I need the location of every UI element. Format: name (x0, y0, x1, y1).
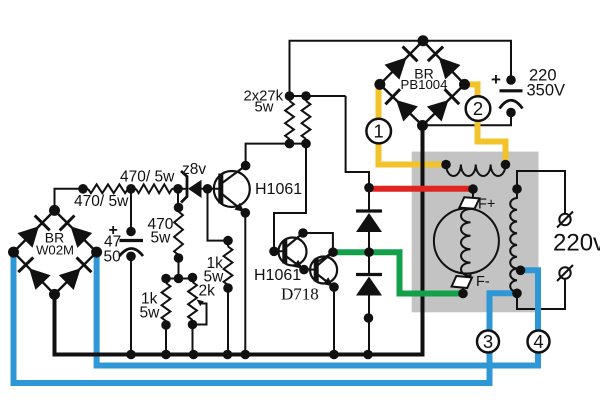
svg-text:z8v: z8v (182, 161, 206, 178)
svg-text:H1061: H1061 (254, 267, 301, 284)
field winding (horizontal coil) (446, 165, 506, 177)
red wire (field node to F+ brush) (369, 186, 473, 192)
wire: Q3 collector to green node (318, 252, 333, 261)
wire: 2x27k bottom to Q2 base (274, 144, 306, 252)
svg-text:350V: 350V (527, 82, 566, 100)
green wire (regulator output to F- brush) (333, 252, 463, 293)
bridge rectifier BR PB1004 (380, 41, 423, 85)
wire: F- brush lead (463, 273, 471, 294)
resistor R2 470/5w (horizontal) (136, 184, 172, 193)
capacitor C2 220/350V plates (500, 89, 523, 92)
wire: stator bottom to output terminal 2 (517, 279, 565, 310)
blue wire 3 (stator bottom to W02M AC left) (14, 252, 517, 383)
svg-text:1: 1 (374, 121, 384, 142)
node label 2 (466, 96, 491, 121)
svg-text:470/ 5w: 470/ 5w (120, 169, 175, 186)
bridge rectifier BR W02M (14, 210, 55, 252)
brush F+ (top parallelogram) (459, 197, 479, 209)
wire: Q1 collector to 2x27k bottom (246, 144, 306, 166)
diode D1 (upper of stack) (356, 209, 382, 212)
resistor R1 470/5w (horizontal) (88, 184, 128, 193)
junction dots (78, 184, 88, 194)
output terminal top (phi) (559, 214, 570, 225)
resistor R5 1k 5w (vertical right) (224, 247, 233, 286)
capacitor C1 47/50 plates (120, 239, 144, 242)
wire: C1 to negative bus (130, 255, 132, 355)
wire: zener node down to resistor R3 (177, 189, 179, 212)
node label 1 (366, 119, 391, 144)
wire: zener to Q1 base (202, 188, 221, 190)
stator winding (vertical coil) (510, 189, 517, 293)
wire: R7 leads (305, 96, 307, 144)
svg-text:D718: D718 (281, 285, 319, 304)
resistor R7 27k (right of pair) (302, 101, 311, 139)
svg-text:4: 4 (533, 331, 543, 352)
resistor R3 470 5w (vertical) (174, 212, 183, 256)
rotor winding (vertical coil) (461, 209, 470, 276)
wiper of VR1 2k (194, 304, 207, 325)
wire: VR1 leads (192, 278, 194, 355)
wire: R2 to zener (172, 188, 187, 190)
svg-text:H1061: H1061 (255, 181, 302, 198)
svg-text:2: 2 (473, 98, 483, 119)
brush F- (bottom parallelogram) (452, 276, 472, 288)
svg-text:50: 50 (104, 249, 122, 266)
resistor R6 27k (left of pair) (285, 101, 294, 139)
blue wire 4 (stator tap to W02M AC right) (97, 252, 538, 365)
wire: diode stack middle lead (368, 232, 370, 276)
svg-text:5w: 5w (151, 230, 172, 247)
bridge node dots (49, 205, 60, 216)
potentiometer VR1 2k body (188, 282, 197, 320)
wire: 2x27k top tie (290, 95, 346, 97)
wire: PB1004 - to capacitor C2 (423, 113, 512, 126)
negative bus (thick) from W02M - to PB1004 - (55, 126, 423, 355)
svg-text:5w: 5w (140, 305, 161, 322)
wire: R1 to R2 node (128, 188, 136, 190)
wire: Q1 emitter down to bus (244, 213, 246, 355)
yellow wire 1 (PB1004 AC left to field winding) (379, 87, 447, 165)
transistor Q1 H1061 (214, 171, 250, 207)
wire: 2x27k top to field node (346, 96, 369, 188)
diode D2 (lower of stack) (356, 273, 382, 276)
svg-text:PB1004: PB1004 (401, 77, 448, 92)
wire: Q2 collector to green node (303, 233, 333, 252)
node label 3 (477, 331, 499, 353)
wire: divider cluster tie (166, 278, 193, 280)
generator housing (gray box) (412, 152, 539, 313)
wire: R6 leads (289, 96, 291, 144)
svg-text:5w: 5w (255, 100, 274, 116)
svg-text:470/ 5w: 470/ 5w (74, 193, 129, 210)
wire: diode stack top lead (368, 188, 370, 211)
wire: positive rail from 2x27k to PB1004 and C2 (290, 41, 512, 96)
resistor R4 1k 5w (vertical left) (162, 283, 171, 321)
svg-text:220v: 220v (553, 230, 600, 257)
wire: R4 leads (165, 279, 167, 355)
wire: chain node down to capacitor C1 (130, 189, 132, 232)
wire: stator top to output terminal 1 (517, 171, 565, 214)
yellow wire 2 (PB1004 AC right to field winding) (465, 84, 506, 164)
wire: base node down to R5 (208, 189, 229, 247)
svg-text:W02M: W02M (36, 243, 74, 258)
wire: R3 bottom to divider node (178, 255, 180, 279)
svg-text:F+: F+ (478, 197, 495, 213)
node label 4 (528, 331, 550, 353)
svg-text:3: 3 (483, 331, 493, 352)
wire: W02M + output up to resistor chain (55, 189, 89, 211)
rotor circle (434, 209, 499, 274)
wire: R5 bottom to bus (227, 285, 229, 355)
transistor Q3 D718 (310, 257, 337, 284)
output terminal bottom (phi) (559, 267, 570, 278)
wire: Q3 emitter down to bus (333, 287, 335, 354)
wire: Q2 emitter to Q3 base (304, 269, 317, 271)
wire: diode stack bottom lead (368, 295, 370, 355)
svg-text:F-: F- (476, 274, 490, 290)
svg-text:+: + (491, 70, 501, 89)
svg-text:5w: 5w (204, 269, 225, 286)
zener diode z8v (188, 180, 202, 198)
wire: F+ brush lead (471, 189, 474, 210)
transistor Q2 H1061 (279, 238, 307, 266)
